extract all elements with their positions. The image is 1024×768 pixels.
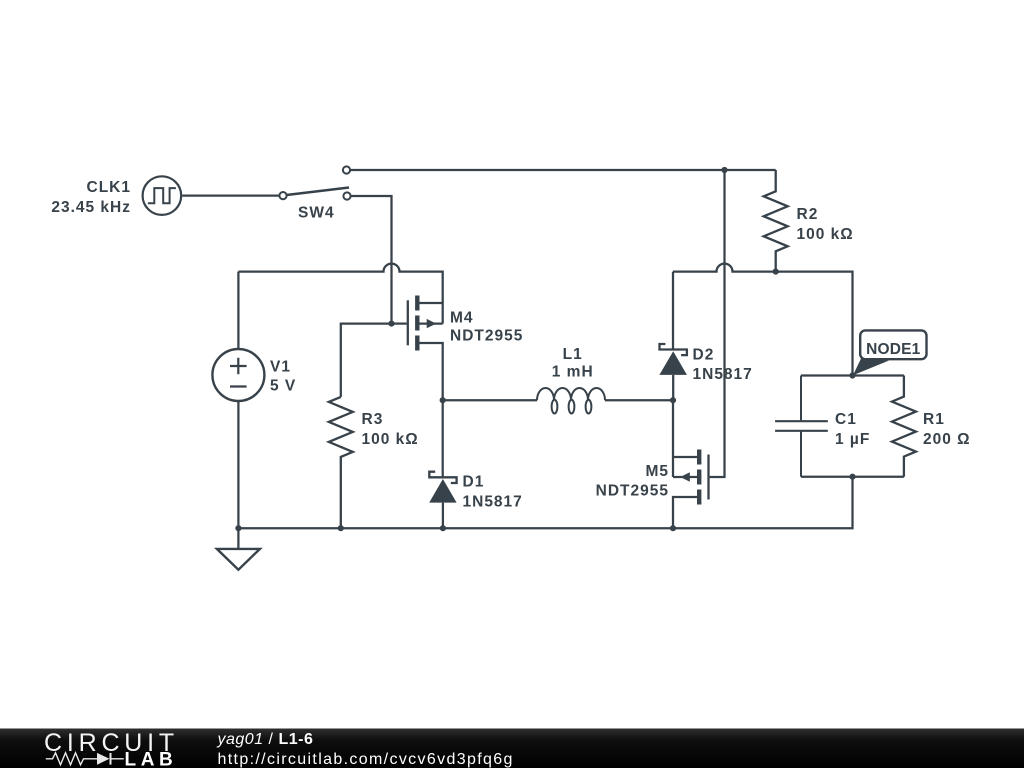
svg-text:CLK1: CLK1 bbox=[87, 179, 131, 196]
svg-text:NDT2955: NDT2955 bbox=[450, 328, 523, 345]
D2 anode triangle bbox=[659, 351, 687, 375]
label R3 value bbox=[362, 411, 419, 448]
junction top rail / M5 gate line bbox=[721, 167, 727, 173]
node NODE1 junction bbox=[849, 372, 855, 378]
wire gate node to R3 top bbox=[341, 324, 392, 397]
resistor R3 bbox=[329, 397, 353, 528]
wire V1 bottom lead bbox=[237, 401, 239, 549]
D1 anode triangle bbox=[429, 479, 456, 503]
M4 gate bar bbox=[407, 300, 409, 345]
svg-text:R3: R3 bbox=[362, 411, 384, 428]
capacitor C1 bbox=[775, 376, 828, 477]
svg-text:100 kΩ: 100 kΩ bbox=[362, 431, 419, 448]
svg-text:1 µF: 1 µF bbox=[835, 431, 870, 448]
label L1 value bbox=[552, 346, 594, 381]
switch terminal left bbox=[279, 192, 286, 199]
resistor R1 bbox=[892, 376, 916, 477]
svg-text:SW4: SW4 bbox=[298, 205, 335, 222]
M5 source vertical bbox=[672, 400, 674, 477]
svg-text:M4: M4 bbox=[450, 310, 474, 327]
junction M5 ground rail bbox=[670, 525, 676, 531]
svg-text:NDT2955: NDT2955 bbox=[596, 483, 669, 500]
svg-text:http://circuitlab.com/cvcv6vd3: http://circuitlab.com/cvcv6vd3pfq6g bbox=[218, 751, 514, 768]
label M4 value bbox=[450, 310, 523, 345]
wire RC bottom frame bbox=[801, 476, 904, 478]
wire V1 top lead bbox=[237, 272, 239, 349]
junction R3 ground bbox=[338, 525, 344, 531]
junction ground node bbox=[235, 525, 241, 531]
svg-text:V1: V1 bbox=[270, 359, 291, 376]
wire top rail from SW4 top terminal to R2 bbox=[350, 169, 775, 171]
label V1 value bbox=[270, 359, 296, 395]
M5 drain stub bbox=[673, 497, 697, 528]
M4 source stub bbox=[420, 302, 443, 304]
junction R2 bottom bbox=[773, 269, 779, 275]
label D2 value bbox=[693, 347, 753, 384]
svg-text:yag01 / L1-6: yag01 / L1-6 bbox=[217, 731, 314, 748]
svg-text:1N5817: 1N5817 bbox=[693, 366, 753, 383]
diode D1 (schottky) bbox=[429, 400, 523, 528]
wire ground rail bbox=[238, 477, 852, 529]
label R1 value bbox=[923, 411, 971, 448]
inductor L1 bbox=[537, 388, 605, 414]
M5 channel bars bbox=[697, 450, 701, 505]
svg-text:C1: C1 bbox=[835, 411, 857, 428]
wire SW4 output down to M4 gate node bbox=[351, 196, 392, 324]
junction RC bottom bbox=[849, 474, 855, 480]
voltage source V1 bbox=[212, 349, 264, 401]
M5 gate bar bbox=[707, 455, 709, 500]
wire RC top frame bbox=[801, 374, 904, 376]
svg-text:D2: D2 bbox=[693, 347, 715, 364]
label M5 value bbox=[596, 463, 669, 500]
svg-text:R2: R2 bbox=[797, 206, 819, 223]
voltage source CLK1 bbox=[143, 176, 182, 215]
svg-text:M5: M5 bbox=[645, 463, 669, 480]
svg-text:D1: D1 bbox=[463, 474, 485, 491]
transistor M5 (PMOS mirrored) bbox=[596, 400, 709, 528]
node flag NODE1 bbox=[853, 330, 927, 375]
wire CLK1 to SW4 bbox=[182, 194, 279, 196]
label C1 value bbox=[835, 411, 870, 448]
svg-text:1 mH: 1 mH bbox=[552, 364, 594, 381]
wire M5 gate line from top rail bbox=[710, 170, 725, 477]
junction D1 ground rail bbox=[440, 525, 446, 531]
D2 cathode bar with hooks bbox=[660, 344, 687, 355]
svg-text:1N5817: 1N5817 bbox=[463, 494, 523, 511]
M4 drain stub bbox=[420, 343, 443, 400]
M5 bulk stub with arrow bbox=[673, 476, 697, 478]
node L1 right junction bbox=[670, 397, 676, 403]
svg-text:200 Ω: 200 Ω bbox=[923, 431, 971, 448]
footer bar bbox=[0, 729, 1024, 768]
svg-text:5 V: 5 V bbox=[270, 378, 296, 395]
switch lever bbox=[287, 188, 350, 196]
label R2 value bbox=[797, 206, 854, 243]
wire L1 left lead bbox=[443, 399, 537, 401]
svg-text:23.45 kHz: 23.45 kHz bbox=[51, 199, 131, 216]
wire L1 right lead bbox=[605, 399, 673, 401]
switch terminal top bbox=[343, 166, 350, 173]
wire right rail D2 R2 C1 with hop over M5 gate line bbox=[673, 264, 853, 376]
wire gate node to M4 gate bbox=[392, 322, 407, 324]
switch terminal right bbox=[343, 192, 350, 199]
switch SW4 bbox=[279, 166, 350, 221]
wire V1 plus rail with hop over gate wire bbox=[238, 264, 442, 324]
svg-text:LAB: LAB bbox=[125, 750, 178, 768]
svg-text:NODE1: NODE1 bbox=[866, 341, 921, 358]
M4 channel bars bbox=[415, 296, 419, 351]
label CLK1 value bbox=[51, 179, 131, 216]
diode D2 (schottky) bbox=[659, 272, 752, 401]
M5 source stub bbox=[673, 456, 697, 458]
node L1 left junction bbox=[440, 397, 446, 403]
resistor R2 bbox=[764, 170, 788, 272]
svg-text:R1: R1 bbox=[923, 411, 945, 428]
svg-text:L1: L1 bbox=[563, 346, 583, 363]
svg-text:100 kΩ: 100 kΩ bbox=[797, 226, 854, 243]
transistor M4 (PMOS) bbox=[408, 296, 524, 401]
node M4 gate junction bbox=[388, 321, 394, 327]
D1 cathode bar with hooks bbox=[429, 472, 456, 483]
logo resistor-diode glyph bbox=[46, 753, 124, 765]
label D1 value bbox=[463, 474, 523, 511]
ground bbox=[217, 549, 260, 570]
M4 bulk stub with arrow bbox=[420, 322, 443, 324]
